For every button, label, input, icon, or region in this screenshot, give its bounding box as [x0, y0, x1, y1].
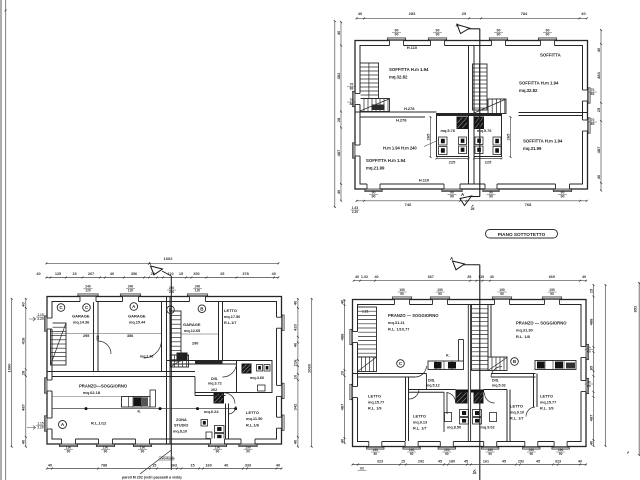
svg-text:LETTO: LETTO — [224, 308, 237, 313]
svg-text:356: 356 — [127, 334, 133, 338]
br plan: top dimension — [354, 280, 586, 282]
top plan: section line A-A — [479, 29, 481, 197]
bl plan: living room floor line — [52, 396, 122, 398]
br plan: left unit inner walls — [405, 377, 407, 442]
top plan: small interior dims — [430, 117, 432, 157]
svg-text:363: 363 — [171, 464, 177, 468]
bl plan: left stair — [51, 323, 67, 365]
svg-text:90: 90 — [438, 292, 442, 296]
svg-text:DIS.: DIS. — [211, 377, 218, 381]
svg-text:GARAGE: GARAGE — [183, 322, 201, 327]
svg-text:mq.11.50: mq.11.50 — [246, 416, 262, 421]
svg-text:40: 40 — [293, 439, 298, 444]
svg-text:378: 378 — [242, 272, 248, 276]
svg-text:115: 115 — [478, 275, 484, 279]
svg-text:R.L. 1/9: R.L. 1/9 — [368, 407, 382, 411]
svg-text:mq.31.21: mq.31.21 — [388, 320, 405, 325]
svg-text:40: 40 — [339, 299, 344, 304]
svg-text:SOFFITTA H.m 1.94: SOFFITTA H.m 1.94 — [389, 67, 429, 72]
top plan: party wall — [468, 46, 470, 185]
svg-text:487: 487 — [339, 403, 344, 410]
svg-text:90: 90 — [141, 450, 145, 454]
sheet left border lines — [0, 0, 2, 480]
svg-text:120: 120 — [128, 289, 134, 293]
svg-text:mq.32.82: mq.32.82 — [519, 88, 538, 93]
svg-text:88: 88 — [587, 384, 591, 388]
svg-text:15: 15 — [179, 272, 183, 276]
br plan: wc fixtures — [460, 410, 469, 417]
br plan: outer wall — [353, 300, 587, 447]
br plan: right unit inner walls — [506, 390, 508, 442]
svg-text:mq.5.02: mq.5.02 — [492, 384, 506, 388]
svg-text:160: 160 — [205, 464, 211, 468]
svg-text:mq.17.50: mq.17.50 — [224, 315, 240, 319]
svg-text:ZONA: ZONA — [176, 418, 187, 422]
bl plan: windows right wall — [276, 317, 282, 328]
svg-text:90: 90 — [216, 450, 220, 454]
svg-text:SOFFITTA H.m 1.94: SOFFITTA H.m 1.94 — [519, 81, 559, 86]
svg-text:295: 295 — [83, 334, 89, 338]
top plan: right bathroom — [474, 114, 502, 157]
svg-text:R.L.1/8: R.L.1/8 — [246, 423, 260, 428]
bl plan: windows bottom wall — [62, 438, 76, 444]
svg-text:45: 45 — [438, 460, 442, 464]
svg-text:250: 250 — [193, 272, 199, 276]
bl plan: small fixtures — [201, 420, 208, 427]
svg-text:SOFFITTA H.m 1.94: SOFFITTA H.m 1.94 — [523, 139, 563, 144]
svg-text:283: 283 — [409, 11, 416, 16]
svg-text:H.110: H.110 — [419, 178, 429, 183]
svg-text:262: 262 — [211, 388, 217, 392]
svg-text:40: 40 — [21, 302, 26, 307]
svg-text:R.L. 1/9: R.L. 1/9 — [540, 407, 554, 411]
svg-text:1.02: 1.02 — [361, 275, 368, 279]
top plan: left unit dividing wall — [355, 111, 437, 113]
svg-text:H.278: H.278 — [404, 106, 415, 111]
br plan: right kitchen — [535, 361, 576, 370]
svg-text:40: 40 — [374, 275, 378, 279]
bl plan: outer wall — [47, 297, 282, 445]
svg-text:mq.31.99: mq.31.99 — [523, 146, 542, 151]
br plan: bottom dimension — [353, 464, 587, 466]
br plan: windows right wall — [580, 347, 586, 358]
svg-text:265: 265 — [505, 133, 510, 140]
svg-text:487: 487 — [596, 146, 601, 153]
svg-text:90: 90 — [488, 452, 492, 456]
svg-text:pareti M 202 (vetri passanti a: pareti M 202 (vetri passanti a vista) — [122, 476, 182, 480]
svg-text:mq.8,10: mq.8,10 — [173, 430, 187, 434]
svg-text:267: 267 — [88, 272, 94, 276]
svg-text:90: 90 — [497, 33, 501, 37]
svg-text:LETTO: LETTO — [510, 404, 523, 409]
svg-text:45: 45 — [464, 460, 468, 464]
bl plan: wall garage B | letto — [218, 302, 220, 361]
svg-text:GARAGE: GARAGE — [72, 314, 90, 319]
svg-text:mq.3.72: mq.3.72 — [208, 382, 222, 386]
svg-text:68: 68 — [587, 350, 591, 354]
svg-text:R.L. 1/7: R.L. 1/7 — [413, 427, 427, 431]
svg-text:40: 40 — [358, 11, 363, 16]
svg-text:90: 90 — [550, 292, 554, 296]
svg-text:2.20: 2.20 — [37, 317, 43, 321]
svg-text:90: 90 — [436, 33, 440, 37]
svg-text:90: 90 — [500, 292, 504, 296]
svg-text:R.L. 1/8: R.L. 1/8 — [516, 334, 531, 339]
svg-text:88: 88 — [350, 102, 354, 106]
svg-text:40: 40 — [490, 275, 494, 279]
svg-text:PRANZO — SOGGIORNO: PRANZO — SOGGIORNO — [516, 321, 567, 326]
bl plan: windows top wall — [80, 296, 96, 302]
svg-text:90: 90 — [104, 450, 108, 454]
svg-text:90: 90 — [372, 195, 376, 199]
svg-text:H.278: H.278 — [396, 118, 407, 123]
svg-text:mq.31.30: mq.31.30 — [516, 328, 533, 333]
svg-text:R.L. 1/7: R.L. 1/7 — [510, 417, 524, 421]
svg-text:45: 45 — [502, 460, 506, 464]
svg-text:K.: K. — [446, 354, 450, 358]
svg-text:40: 40 — [272, 272, 276, 276]
svg-text:mq.8.50: mq.8.50 — [447, 426, 461, 430]
svg-text:PRANZO—SOGGIORNO: PRANZO—SOGGIORNO — [79, 384, 128, 389]
svg-text:LETTO: LETTO — [246, 410, 259, 415]
svg-text:15: 15 — [588, 288, 593, 293]
svg-text:45: 45 — [536, 460, 540, 464]
svg-text:418: 418 — [21, 337, 26, 344]
svg-text:852: 852 — [633, 305, 638, 312]
svg-text:323: 323 — [555, 460, 561, 464]
svg-text:488: 488 — [339, 333, 344, 340]
svg-text:85: 85 — [588, 365, 593, 370]
br plan: windows bottom wall — [369, 441, 382, 447]
top plan: windows right wall — [582, 90, 588, 101]
svg-text:488: 488 — [588, 318, 593, 325]
svg-text:40: 40 — [582, 275, 586, 279]
svg-text:40: 40 — [21, 439, 26, 444]
svg-text:63: 63 — [360, 467, 364, 471]
svg-text:788: 788 — [101, 464, 107, 468]
svg-text:40: 40 — [596, 174, 601, 179]
svg-text:487: 487 — [588, 414, 593, 421]
bl plan: windows left wall — [46, 318, 52, 329]
svg-text:mq.6.24: mq.6.24 — [204, 409, 219, 414]
bl plan: dis walls — [195, 392, 237, 394]
svg-text:mq.9.02: mq.9.02 — [481, 426, 495, 430]
svg-text:40: 40 — [336, 189, 341, 194]
svg-text:mq.21.99: mq.21.99 — [366, 166, 385, 171]
top plan: windows top wall — [390, 40, 404, 46]
bl plan: garage thin lines — [52, 333, 161, 335]
svg-text:487: 487 — [336, 149, 341, 156]
bl plan: bottom dimension line — [47, 468, 282, 470]
svg-text:90: 90 — [561, 195, 565, 199]
svg-text:90: 90 — [373, 452, 377, 456]
top plan: left stair — [360, 63, 379, 99]
top plan: windows bottom wall — [367, 183, 380, 189]
bl plan: party wall — [161, 302, 163, 372]
svg-text:40: 40 — [224, 464, 228, 468]
bl plan: middle stair — [171, 311, 182, 361]
svg-text:40: 40 — [588, 440, 593, 445]
svg-text:mq.15.44: mq.15.44 — [129, 321, 146, 325]
svg-text:85: 85 — [591, 122, 595, 126]
svg-text:40: 40 — [596, 47, 601, 52]
top plan: bathroom dark top band — [437, 113, 502, 116]
svg-text:29: 29 — [462, 11, 467, 16]
bl plan: right dimension columns — [297, 299, 299, 447]
svg-text:mq.12.65: mq.12.65 — [184, 329, 200, 333]
svg-text:85: 85 — [591, 92, 595, 96]
top plan: right stair — [473, 64, 488, 110]
br plan: windows left wall — [352, 332, 358, 343]
svg-text:90: 90 — [445, 452, 449, 456]
svg-text:15: 15 — [190, 464, 194, 468]
bl plan: garage B south wall — [167, 360, 273, 362]
svg-text:K.: K. — [138, 410, 142, 414]
svg-text:1060: 1060 — [307, 363, 312, 373]
svg-text:90: 90 — [450, 195, 454, 199]
svg-text:mq.4.60: mq.4.60 — [250, 376, 264, 380]
svg-text:mq.9.13: mq.9.13 — [413, 421, 427, 425]
top plan: left bathroom — [437, 114, 469, 157]
svg-text:265: 265 — [425, 133, 430, 140]
br plan: section arrow + line — [453, 261, 465, 270]
svg-text:161: 161 — [483, 460, 489, 464]
bl plan: garage zone wall — [47, 371, 195, 373]
svg-text:40: 40 — [581, 11, 586, 16]
svg-text:333: 333 — [245, 464, 251, 468]
svg-text:15: 15 — [72, 272, 76, 276]
svg-text:40: 40 — [36, 272, 40, 276]
top plan: windows left wall — [354, 94, 360, 105]
br plan: left dimension column — [344, 300, 346, 443]
bl plan: zona studio wall — [225, 404, 227, 440]
svg-text:40: 40 — [293, 300, 298, 305]
br plan: right unit dividing wall — [491, 373, 536, 375]
bl plan: living beam line — [52, 408, 236, 410]
svg-text:768: 768 — [525, 202, 532, 207]
svg-text:40: 40 — [110, 272, 114, 276]
top plan: right unit dividing wall — [519, 112, 588, 114]
svg-text:225: 225 — [485, 160, 492, 165]
svg-text:1060: 1060 — [7, 363, 12, 373]
svg-text:90: 90 — [246, 450, 250, 454]
svg-text:90: 90 — [67, 450, 71, 454]
svg-text:mq.32.82: mq.32.82 — [389, 75, 408, 80]
svg-text:90: 90 — [559, 452, 563, 456]
svg-text:40: 40 — [276, 464, 280, 468]
svg-text:90: 90 — [489, 195, 493, 199]
svg-text:40: 40 — [339, 438, 344, 443]
svg-text:20: 20 — [339, 370, 344, 375]
caption: PIANO SOTTOTETTO — [486, 230, 558, 239]
br plan: showers — [456, 390, 469, 393]
svg-text:LETTO: LETTO — [368, 394, 381, 399]
svg-text:2.20: 2.20 — [37, 426, 43, 430]
svg-text:mq.14.36: mq.14.36 — [73, 321, 89, 325]
svg-text:GARAGE: GARAGE — [128, 314, 146, 319]
svg-text:25: 25 — [220, 272, 224, 276]
svg-text:28: 28 — [21, 370, 26, 375]
svg-text:482: 482 — [336, 72, 341, 79]
svg-text:40: 40 — [355, 275, 359, 279]
svg-text:25: 25 — [596, 107, 601, 112]
svg-text:SOFFITTA H.m 1.94: SOFFITTA H.m 1.94 — [366, 158, 406, 163]
svg-text:90: 90 — [410, 452, 414, 456]
svg-text:180: 180 — [449, 460, 455, 464]
br plan: right dimension columns — [593, 285, 595, 446]
svg-text:120: 120 — [85, 289, 91, 293]
svg-text:35: 35 — [467, 275, 471, 279]
svg-text:90: 90 — [546, 33, 550, 37]
svg-text:40: 40 — [48, 464, 52, 468]
bl plan: left dimension columns — [11, 299, 13, 447]
svg-text:40: 40 — [578, 460, 582, 464]
top plan: bottom dimension line — [357, 200, 587, 202]
svg-text:1.21: 1.21 — [362, 310, 369, 314]
svg-text:784: 784 — [521, 11, 528, 16]
svg-text:90: 90 — [395, 33, 399, 37]
top plan: top dimension line — [357, 17, 587, 19]
svg-text:292: 292 — [418, 460, 424, 464]
svg-text:667: 667 — [428, 275, 434, 279]
svg-text:26: 26 — [471, 207, 475, 211]
svg-text:R.L.1/7: R.L.1/7 — [224, 321, 236, 325]
svg-text:26: 26 — [473, 471, 477, 475]
svg-text:323: 323 — [377, 460, 383, 464]
svg-text:28: 28 — [336, 117, 341, 122]
svg-text:DIS.: DIS. — [428, 379, 435, 383]
svg-text:480: 480 — [96, 335, 100, 341]
svg-text:H.110: H.110 — [407, 45, 417, 50]
bl plan: shower 2 — [214, 393, 225, 404]
bl plan: middle stair dark closet — [177, 353, 188, 362]
svg-text:H.m 1.94 H.m 240: H.m 1.94 H.m 240 — [383, 146, 417, 151]
top plan: right dimension column — [600, 30, 602, 191]
svg-text:40: 40 — [336, 30, 341, 35]
svg-text:PIANO SOTTOTETTO: PIANO SOTTOTETTO — [498, 232, 546, 237]
svg-text:40: 40 — [293, 342, 298, 347]
bl plan: bathroom right unit — [237, 361, 273, 393]
bl plan: wall garage C|A — [93, 302, 95, 372]
bl plan: top dimension lines — [46, 262, 278, 264]
svg-text:90: 90 — [400, 292, 404, 296]
svg-text:356: 356 — [131, 272, 137, 276]
svg-text:15: 15 — [401, 460, 405, 464]
br plan: party wall — [467, 305, 469, 442]
br plan: right stair — [472, 305, 489, 371]
svg-text:SOFFITTA: SOFFITTA — [540, 53, 561, 58]
svg-text:88: 88 — [350, 87, 354, 91]
svg-text:DIS.: DIS. — [492, 379, 499, 383]
bl plan: kitchen counter — [122, 397, 151, 408]
svg-text:STUDIO: STUDIO — [174, 424, 188, 428]
svg-text:mq.9.10: mq.9.10 — [510, 411, 524, 415]
svg-text:1002: 1002 — [164, 256, 174, 261]
br plan: left unit dividing wall — [353, 373, 427, 375]
svg-text:R.L. 1/10,77: R.L. 1/10,77 — [388, 327, 409, 332]
svg-text:420: 420 — [293, 323, 298, 330]
svg-text:R.L.1/12: R.L.1/12 — [91, 421, 107, 426]
svg-text:LETTO: LETTO — [413, 414, 426, 419]
svg-text:292: 292 — [518, 460, 524, 464]
svg-text:mq.62.18: mq.62.18 — [83, 390, 101, 395]
svg-text:mq.5.12: mq.5.12 — [426, 384, 440, 388]
bl plan: section arrow top — [151, 266, 163, 275]
br plan: door arcs — [415, 366, 427, 377]
svg-text:669: 669 — [549, 275, 555, 279]
svg-text:216: 216 — [293, 359, 298, 366]
svg-text:PRANZO — SOGGIORNO: PRANZO — SOGGIORNO — [388, 313, 439, 318]
svg-text:125: 125 — [55, 272, 61, 276]
br plan: far right dim 852 — [638, 283, 640, 455]
svg-text:290: 290 — [192, 342, 198, 346]
top plan: outer wall — [355, 41, 588, 190]
br plan: left kitchen — [458, 340, 460, 362]
br plan: left stair — [358, 307, 377, 357]
bl plan: section line — [170, 276, 172, 470]
svg-text:mq.2.36: mq.2.36 — [140, 355, 153, 359]
svg-text:487: 487 — [21, 403, 26, 410]
svg-text:483: 483 — [596, 71, 601, 78]
svg-text:mq.15.77: mq.15.77 — [368, 401, 384, 405]
svg-text:2.20: 2.20 — [352, 210, 359, 214]
svg-text:342: 342 — [293, 403, 298, 410]
svg-text:LETTO: LETTO — [540, 394, 553, 399]
svg-text:mq.5.76: mq.5.76 — [441, 128, 456, 133]
top plan: left dimension column — [334, 21, 336, 207]
svg-text:225: 225 — [449, 160, 456, 165]
svg-text:120: 120 — [195, 289, 201, 293]
svg-text:mq.15.77: mq.15.77 — [540, 401, 556, 405]
svg-text:90: 90 — [529, 452, 533, 456]
svg-text:10: 10 — [293, 374, 298, 379]
br plan: windows top wall — [395, 299, 410, 305]
bl plan: garage door arc — [144, 340, 162, 358]
svg-text:746: 746 — [405, 202, 412, 207]
